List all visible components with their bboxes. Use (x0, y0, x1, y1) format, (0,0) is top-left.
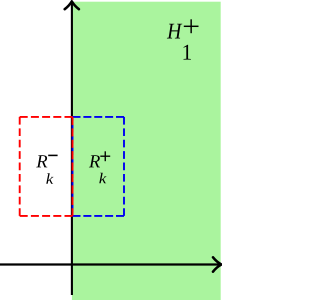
rectangle R+k (blue dashed) (73, 117, 125, 216)
label R+k : letter R (89, 155, 100, 167)
blue rect right edge (123, 117, 125, 216)
label H1+ : letter H (167, 24, 182, 39)
blue rect bottom edge (73, 215, 125, 217)
label R+k : superscript plus (100, 155, 110, 157)
x-axis arrowhead (213, 257, 222, 271)
label R+k : subscript k (99, 173, 106, 183)
red rect right edge (on the y-axis) (72, 117, 74, 216)
wire: x-axis line (0, 263, 220, 265)
region H+ (green half-plane fill) (72, 2, 221, 300)
rectangle R-k (red dashed) (20, 117, 73, 216)
red rect top edge (20, 116, 73, 118)
red rect bottom edge (20, 215, 73, 217)
label R-k : subscript k (46, 173, 53, 183)
label R-k : letter R (36, 155, 47, 167)
label R-k : superscript minus (48, 154, 57, 156)
blue rect top edge (73, 116, 125, 118)
red rect left edge (19, 117, 21, 216)
label H1+ : superscript plus (184, 25, 199, 27)
label H1+ : subscript 1 (183, 45, 190, 60)
wire: y-axis line (71, 2, 73, 295)
y-axis arrowhead (65, 1, 79, 9)
blue rect left edge (shared with red, phase-shifted to fill red gaps) (72, 117, 74, 216)
